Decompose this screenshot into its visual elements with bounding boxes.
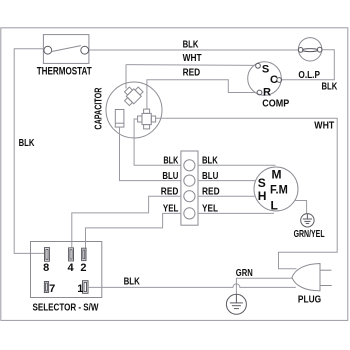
svg-text:L: L <box>271 198 278 212</box>
wire GRN: plug point to ground <box>236 278 292 294</box>
ground GRN (left) <box>226 294 246 314</box>
svg-text:THERMOSTAT: THERMOSTAT <box>37 65 92 77</box>
wire: O.L.P right down to COMP C <box>282 50 335 80</box>
capacitor <box>92 82 162 138</box>
wire WHT: to COMP S <box>126 64 256 67</box>
svg-text:SELECTOR - S/W: SELECTOR - S/W <box>33 302 99 314</box>
wire WHT: capacitor plus right arm to right side, down to plug <box>156 118 338 269</box>
svg-text:S: S <box>258 176 266 190</box>
wire: WHT down to capacitor diamond terminal <box>125 65 127 89</box>
svg-text:BLK: BLK <box>322 81 338 92</box>
svg-text:M: M <box>272 167 282 181</box>
plug <box>292 264 332 306</box>
wire YEL: connector left to selector pin 2 <box>86 213 181 248</box>
capacitor plus terminal (COM) <box>138 109 156 129</box>
wire: thermostat left to BLK vertical <box>14 49 44 254</box>
pin 8 <box>45 248 50 262</box>
fan motor F.M <box>254 167 298 212</box>
pin 4 <box>69 248 74 261</box>
connector block <box>181 151 198 225</box>
plug prong top <box>320 269 331 271</box>
O.L.P overload protector <box>298 38 322 81</box>
wire BLK: capacitor plus left arm down to connector <box>134 119 181 165</box>
wire BLU: capacitor left terminal down to connector <box>120 127 181 181</box>
thermostat <box>37 35 92 78</box>
svg-text:CAPACITOR: CAPACITOR <box>92 87 104 129</box>
pin 2 <box>82 248 86 260</box>
compressor COMP <box>248 62 290 110</box>
svg-text:COMP: COMP <box>262 98 289 110</box>
svg-text:RED: RED <box>183 68 201 79</box>
wire RED: connector right to F.M H <box>198 195 255 197</box>
svg-text:WHT: WHT <box>314 121 334 132</box>
wire BLK: connector right to F.M M <box>198 164 276 166</box>
wire BLK: selector pin 1 to plug (with hop) <box>88 284 296 287</box>
svg-text:2: 2 <box>80 262 86 274</box>
svg-text:S: S <box>262 64 269 76</box>
svg-text:7: 7 <box>49 283 55 295</box>
capacitor diamond terminal (HERM) <box>120 83 144 107</box>
wire BLK: thermostat right to O.L.P <box>89 49 298 51</box>
wire: F.M to GRN/YEL ground <box>295 201 307 214</box>
plug prong bottom <box>320 285 332 287</box>
wire RED: to COMP R <box>147 80 257 109</box>
selector switch <box>31 242 102 314</box>
svg-text:GRN: GRN <box>236 268 253 279</box>
svg-text:8: 8 <box>43 262 49 274</box>
wire RED: connector left to selector pin 4 <box>72 196 181 248</box>
pin 7 <box>44 282 48 293</box>
svg-text:GRN/YEL: GRN/YEL <box>294 229 325 240</box>
svg-text:BLK: BLK <box>163 156 179 167</box>
pin 1 <box>83 281 89 294</box>
svg-text:H: H <box>258 189 267 203</box>
svg-text:BLK: BLK <box>183 39 199 50</box>
svg-text:C: C <box>270 74 278 86</box>
svg-text:BLU: BLU <box>162 171 178 182</box>
svg-text:4: 4 <box>67 262 74 274</box>
svg-text:F.M: F.M <box>270 185 288 197</box>
svg-text:BLK: BLK <box>19 138 35 149</box>
svg-text:BLK: BLK <box>124 277 141 288</box>
svg-text:1: 1 <box>77 283 83 295</box>
svg-text:WHT: WHT <box>183 53 202 64</box>
wire YEL: connector right to F.M L <box>198 212 274 214</box>
svg-text:O.L.P: O.L.P <box>298 69 320 81</box>
capacitor left terminal (FAN) <box>115 110 124 128</box>
ground GRN/YEL <box>301 214 314 227</box>
wire BLU: connector right to F.M S <box>198 180 255 182</box>
svg-text:PLUG: PLUG <box>298 294 321 305</box>
